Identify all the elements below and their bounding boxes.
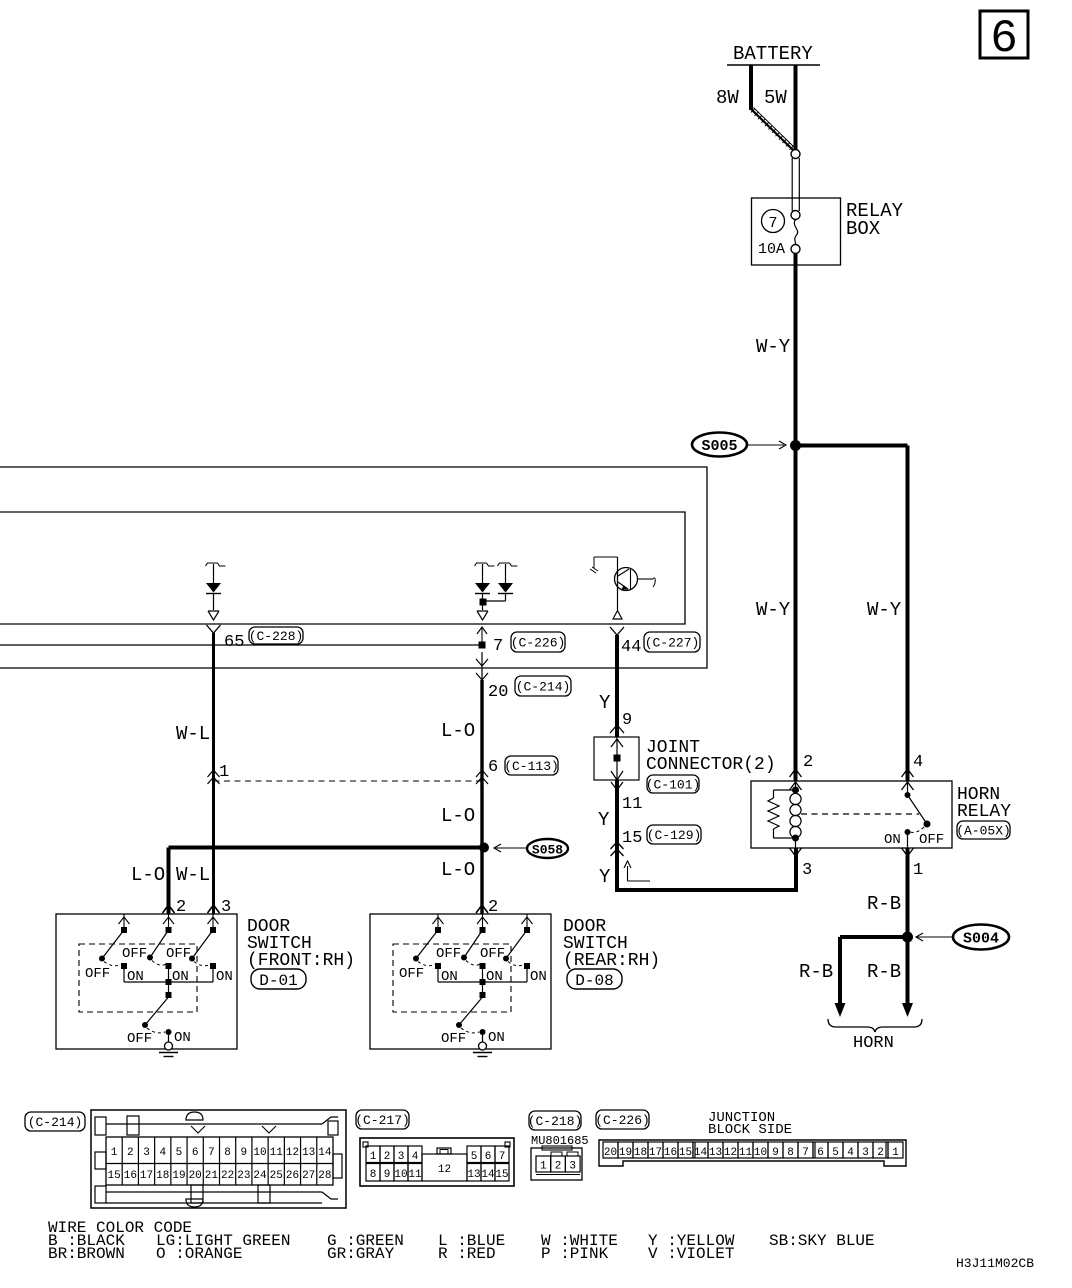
svg-text:16: 16: [664, 1147, 677, 1159]
svg-text:10: 10: [394, 1169, 407, 1181]
svg-text:12: 12: [286, 1147, 299, 1159]
svg-text:R-B: R-B: [799, 961, 833, 983]
svg-text:9: 9: [772, 1147, 779, 1159]
svg-text:D-01: D-01: [259, 972, 297, 990]
svg-text:H3J11M02CB: H3J11M02CB: [956, 1256, 1034, 1271]
svg-text:(C-226): (C-226): [595, 1113, 650, 1128]
svg-text:8W: 8W: [716, 87, 739, 109]
svg-text:12: 12: [724, 1147, 737, 1159]
svg-text:4: 4: [913, 753, 923, 772]
svg-text:24: 24: [253, 1170, 267, 1182]
svg-text:8: 8: [370, 1169, 377, 1181]
svg-text:10A: 10A: [758, 241, 785, 258]
svg-text:W-Y: W-Y: [756, 336, 791, 358]
svg-text:(C-228): (C-228): [249, 629, 304, 644]
svg-text:BATTERY: BATTERY: [733, 43, 813, 65]
svg-text:CONNECTOR(2): CONNECTOR(2): [646, 755, 776, 775]
svg-text:OFF: OFF: [919, 832, 944, 848]
svg-text:OFF: OFF: [399, 966, 424, 982]
svg-text:7: 7: [802, 1147, 809, 1159]
svg-text:9: 9: [622, 711, 632, 730]
svg-text:(C-101): (C-101): [646, 778, 701, 793]
svg-text:OFF: OFF: [85, 966, 110, 982]
svg-text:19: 19: [172, 1170, 185, 1182]
svg-text:15: 15: [622, 829, 642, 848]
svg-text:GR:GRAY: GR:GRAY: [327, 1245, 395, 1263]
svg-text:7: 7: [493, 637, 503, 656]
svg-text:1: 1: [111, 1147, 118, 1159]
svg-text:11: 11: [270, 1147, 284, 1159]
svg-text:25: 25: [270, 1170, 283, 1182]
svg-text:ON: ON: [884, 832, 901, 848]
svg-text:ON: ON: [216, 969, 233, 985]
svg-text:13: 13: [709, 1147, 722, 1159]
svg-text:L-O: L-O: [441, 720, 475, 742]
svg-text:L-O: L-O: [441, 859, 475, 881]
svg-text:13: 13: [302, 1147, 315, 1159]
svg-text:20: 20: [604, 1147, 617, 1159]
svg-text:ON: ON: [488, 1030, 505, 1046]
svg-text:2: 2: [877, 1147, 884, 1159]
svg-text:R-B: R-B: [867, 893, 901, 915]
svg-text:15: 15: [108, 1170, 121, 1182]
svg-text:3: 3: [569, 1161, 576, 1173]
svg-text:11: 11: [622, 795, 642, 814]
svg-text:Y: Y: [599, 866, 611, 888]
svg-text:5: 5: [471, 1151, 478, 1163]
svg-text:5: 5: [176, 1147, 183, 1159]
svg-text:(A-05X): (A-05X): [956, 824, 1011, 839]
svg-text:14: 14: [318, 1147, 332, 1159]
svg-text:3: 3: [862, 1147, 869, 1159]
svg-text:7: 7: [499, 1151, 506, 1163]
svg-text:4: 4: [412, 1151, 419, 1163]
svg-text:O :ORANGE: O :ORANGE: [156, 1245, 242, 1263]
svg-text:ON: ON: [530, 969, 547, 985]
svg-text:1: 1: [370, 1151, 377, 1163]
svg-text:6: 6: [192, 1147, 199, 1159]
svg-text:17: 17: [649, 1147, 662, 1159]
svg-text:7: 7: [768, 215, 777, 232]
svg-text:W-Y: W-Y: [756, 599, 791, 621]
svg-text:10: 10: [754, 1147, 767, 1159]
svg-text:11: 11: [408, 1169, 422, 1181]
svg-text:8: 8: [224, 1147, 231, 1159]
svg-text:(FRONT:RH): (FRONT:RH): [247, 951, 355, 971]
svg-text:27: 27: [302, 1170, 315, 1182]
svg-text:(C-227): (C-227): [645, 636, 700, 651]
svg-text:Y: Y: [599, 692, 611, 714]
svg-text:3: 3: [143, 1147, 150, 1159]
svg-text:ON: ON: [174, 1030, 191, 1046]
svg-text:OFF: OFF: [436, 946, 461, 962]
svg-text:S005: S005: [701, 438, 737, 455]
svg-text:6: 6: [817, 1147, 824, 1159]
svg-text:5W: 5W: [764, 87, 787, 109]
svg-text:R-B: R-B: [867, 961, 901, 983]
svg-text:(C-226): (C-226): [511, 636, 566, 651]
svg-text:7: 7: [208, 1147, 215, 1159]
svg-text:P :PINK: P :PINK: [541, 1245, 609, 1263]
svg-text:W-L: W-L: [176, 864, 210, 886]
svg-text:15: 15: [495, 1169, 508, 1181]
svg-text:R :RED: R :RED: [438, 1245, 496, 1263]
svg-text:1: 1: [219, 763, 229, 782]
svg-text:1: 1: [540, 1161, 547, 1173]
svg-text:18: 18: [156, 1170, 169, 1182]
svg-text:L-O: L-O: [441, 805, 475, 827]
svg-text:17: 17: [140, 1170, 153, 1182]
svg-text:4: 4: [847, 1147, 854, 1159]
svg-text:10: 10: [253, 1147, 266, 1159]
svg-text:3: 3: [398, 1151, 405, 1163]
svg-text:2: 2: [127, 1147, 134, 1159]
svg-text:(REAR:RH): (REAR:RH): [563, 951, 660, 971]
svg-text:(C-217): (C-217): [355, 1113, 410, 1128]
svg-text:OFF: OFF: [122, 946, 147, 962]
svg-text:13: 13: [467, 1169, 480, 1181]
svg-text:BR:BROWN: BR:BROWN: [48, 1245, 125, 1263]
svg-text:6: 6: [990, 13, 1018, 65]
svg-text:OFF: OFF: [441, 1031, 466, 1047]
svg-text:OFF: OFF: [480, 946, 505, 962]
svg-text:HORN: HORN: [853, 1034, 894, 1053]
svg-text:W-L: W-L: [176, 723, 210, 745]
svg-text:L-O: L-O: [131, 864, 165, 886]
svg-text:6: 6: [488, 758, 498, 777]
svg-text:(C-214): (C-214): [516, 680, 571, 695]
svg-text:23: 23: [237, 1170, 250, 1182]
svg-text:S058: S058: [532, 843, 563, 858]
svg-text:S004: S004: [963, 931, 999, 948]
svg-text:19: 19: [619, 1147, 632, 1159]
svg-text:22: 22: [221, 1170, 234, 1182]
svg-text:20: 20: [488, 683, 508, 702]
svg-text:BLOCK SIDE: BLOCK SIDE: [708, 1122, 792, 1138]
svg-text:(C-113): (C-113): [504, 759, 559, 774]
svg-text:D-08: D-08: [575, 972, 613, 990]
svg-text:BOX: BOX: [846, 218, 881, 240]
svg-text:V :VIOLET: V :VIOLET: [648, 1245, 734, 1263]
svg-text:14: 14: [694, 1147, 708, 1159]
svg-text:26: 26: [286, 1170, 299, 1182]
svg-text:Y: Y: [598, 809, 610, 831]
svg-text:18: 18: [634, 1147, 647, 1159]
svg-text:1: 1: [892, 1147, 899, 1159]
svg-text:9: 9: [241, 1147, 248, 1159]
svg-text:(C-218): (C-218): [528, 1114, 583, 1129]
svg-text:28: 28: [318, 1170, 331, 1182]
svg-text:(C-129): (C-129): [647, 828, 702, 843]
svg-text:4: 4: [159, 1147, 166, 1159]
svg-text:20: 20: [189, 1170, 202, 1182]
svg-text:65: 65: [224, 633, 244, 652]
svg-text:RELAY: RELAY: [957, 802, 1011, 822]
svg-text:6: 6: [485, 1151, 492, 1163]
svg-text:8: 8: [787, 1147, 794, 1159]
svg-text:2: 2: [803, 753, 813, 772]
svg-text:16: 16: [124, 1170, 137, 1182]
svg-text:OFF: OFF: [166, 946, 191, 962]
svg-text:12: 12: [438, 1164, 451, 1176]
svg-text:44: 44: [621, 638, 641, 657]
svg-text:(C-214): (C-214): [28, 1115, 83, 1130]
svg-text:5: 5: [832, 1147, 839, 1159]
svg-text:2: 2: [555, 1161, 562, 1173]
svg-text:1: 1: [913, 861, 923, 880]
svg-text:15: 15: [679, 1147, 692, 1159]
svg-text:21: 21: [205, 1170, 219, 1182]
svg-text:3: 3: [802, 861, 812, 880]
svg-text:2: 2: [384, 1151, 391, 1163]
svg-text:OFF: OFF: [127, 1031, 152, 1047]
svg-text:SB:SKY BLUE: SB:SKY BLUE: [769, 1232, 875, 1250]
svg-text:14: 14: [481, 1169, 495, 1181]
svg-text:9: 9: [384, 1169, 391, 1181]
svg-text:11: 11: [739, 1147, 753, 1159]
svg-text:W-Y: W-Y: [867, 599, 902, 621]
